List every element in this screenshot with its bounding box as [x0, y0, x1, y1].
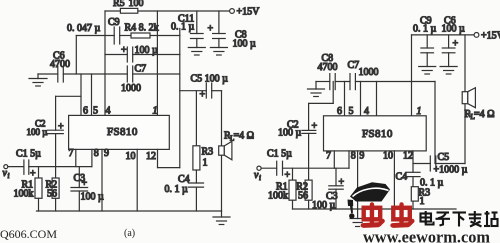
input terminal vi: [3, 165, 10, 180]
wire pin4 right: [376, 82, 378, 116]
capacitor C9 right: [413, 16, 437, 67]
svg-text:56: 56: [298, 191, 308, 202]
capacitor C2 100u: [27, 119, 65, 138]
capacitor C7 1000: [121, 64, 146, 95]
wire output rail right: [434, 82, 436, 164]
svg-text:www.eeworm.com: www.eeworm.com: [363, 228, 490, 243]
svg-text:12: 12: [403, 151, 413, 162]
resistor R3 1: [193, 91, 213, 183]
wire pin7 right: [326, 151, 334, 169]
wire input bus: [29, 166, 92, 168]
svg-text:0. 1 µ: 0. 1 µ: [171, 22, 195, 33]
wire pin9 right: [358, 151, 365, 210]
wire R2 drop: [55, 134, 57, 178]
wire rail pin1: [153, 11, 158, 117]
svg-text:C5 100 µ: C5 100 µ: [191, 74, 229, 85]
svg-text:8: 8: [94, 148, 99, 159]
node feedback branch wire: [76, 35, 180, 37]
svg-text:7: 7: [69, 148, 74, 159]
svg-text:4: 4: [364, 106, 369, 117]
svg-text:10: 10: [126, 151, 136, 162]
wire speaker rail: [221, 91, 223, 211]
svg-text:+: +: [453, 39, 459, 50]
ground left: [29, 74, 47, 86]
wire speaker rail right: [464, 35, 466, 164]
svg-text:=4 Ω: =4 Ω: [474, 109, 495, 120]
svg-text:C7: C7: [135, 64, 147, 75]
svg-text:0. 1 µ: 0. 1 µ: [165, 184, 189, 195]
svg-text:100 µ: 100 µ: [442, 24, 466, 35]
ground bottom: [213, 211, 230, 225]
wire pin12 right: [403, 151, 413, 173]
wire bottom bus: [37, 210, 222, 212]
svg-text:+: +: [339, 177, 345, 188]
+15V terminal right: [474, 31, 500, 42]
capacitor C1 5u: [8, 149, 41, 180]
ground left right-circuit: [308, 82, 325, 97]
resistor R2 right 56: [296, 180, 312, 209]
+15V terminal: [230, 7, 261, 18]
svg-text:+15V: +15V: [481, 31, 500, 42]
svg-text:0. 1 µ: 0. 1 µ: [413, 24, 437, 35]
svg-text:7: 7: [326, 151, 331, 162]
svg-text:R5: R5: [113, 0, 125, 9]
capacitor C11 0.1u: [171, 11, 203, 48]
logo text dianzi xiazaizhan: [421, 211, 498, 227]
svg-text:1000: 1000: [359, 67, 379, 78]
svg-text:C1 5µ: C1 5µ: [267, 149, 292, 160]
wire pin8 right: [349, 151, 356, 169]
svg-text:i: i: [8, 172, 10, 180]
svg-text:+: +: [312, 121, 318, 132]
svg-text:+: +: [200, 90, 206, 101]
ground under C11: [188, 48, 205, 56]
wire rail pin1 right: [412, 35, 422, 117]
svg-text:100k: 100k: [268, 191, 288, 202]
wire C2 feed from pin6: [56, 96, 81, 130]
capacitor C6 right: [442, 16, 466, 67]
svg-text:C7: C7: [348, 60, 360, 71]
svg-text:+: +: [82, 178, 88, 189]
svg-text:C4: C4: [396, 172, 408, 183]
wire pin12 to C5: [413, 163, 430, 165]
svg-text:4700: 4700: [50, 59, 70, 70]
wire 0.047 drop: [75, 36, 77, 75]
svg-text:56: 56: [47, 189, 57, 200]
resistor R1 100k: [14, 167, 43, 211]
capacitor C7 right 1000: [348, 60, 379, 90]
capacitor C8 right 4700: [318, 53, 338, 90]
svg-text:4700: 4700: [318, 62, 338, 73]
svg-text:6: 6: [337, 106, 342, 117]
svg-text:100: 100: [129, 0, 144, 9]
logo chongchong characters (red): [363, 204, 413, 225]
wire pin12 to output rail: [146, 149, 180, 167]
svg-text:C1 5µ: C1 5µ: [16, 149, 41, 160]
capacitor 100u bootstrap: [105, 45, 180, 62]
wire C2 feed right: [309, 82, 334, 131]
resistor R5: [113, 0, 144, 13]
capacitor C6 4700: [50, 51, 70, 83]
svg-text:R3: R3: [202, 147, 214, 158]
ground under C8: [210, 48, 227, 56]
wire pin10: [126, 149, 138, 211]
resistor R1 right 100k: [268, 168, 296, 209]
svg-text:1: 1: [417, 106, 422, 117]
svg-text:FS810: FS810: [362, 128, 393, 140]
ground bottom right: [350, 209, 365, 227]
capacitor C3 100u: [71, 167, 104, 211]
capacitor C4 right 0.1u: [396, 172, 444, 189]
svg-text:100 µ: 100 µ: [233, 39, 257, 50]
speaker right RL=4ohm: [462, 88, 494, 121]
wire input bus right: [283, 167, 350, 169]
input terminal vi right: [254, 166, 261, 182]
wire pin6: [80, 74, 82, 115]
svg-text:+: +: [285, 170, 291, 181]
speaker RL=4ohm: [219, 131, 254, 160]
svg-text:1000: 1000: [121, 83, 141, 94]
svg-text:100 µ: 100 µ: [81, 192, 105, 203]
capacitor C2 right 100u: [278, 120, 318, 139]
svg-text:=4 Ω: =4 Ω: [234, 131, 255, 142]
svg-text:C5: C5: [438, 152, 450, 163]
svg-text:8: 8: [351, 151, 356, 162]
svg-text:1: 1: [420, 196, 425, 207]
capacitor C9 0.047u: [67, 17, 120, 44]
ground under C9 right: [419, 67, 436, 75]
svg-text:9: 9: [359, 151, 364, 162]
svg-text:10: 10: [383, 151, 393, 162]
svg-text:R4 8. 2k: R4 8. 2k: [125, 23, 159, 34]
op-amp U2 FS810: [324, 116, 427, 151]
wire pin6 right: [344, 82, 346, 116]
wire R2 drop right: [308, 133, 310, 180]
svg-text:+: +: [208, 24, 214, 35]
svg-text:100 µ: 100 µ: [27, 127, 48, 137]
svg-text:12: 12: [146, 151, 156, 162]
svg-text:i: i: [259, 174, 261, 182]
wire pin5: [91, 74, 93, 115]
capacitor C8 100u: [208, 11, 257, 50]
resistor R2 56: [46, 178, 60, 211]
capacitor C4 0.1u: [165, 174, 204, 211]
svg-text:0. 047 µ: 0. 047 µ: [67, 23, 101, 34]
op-amp U1 FS810: [69, 115, 170, 149]
wire pin8: [92, 148, 99, 166]
wire pin9: [102, 148, 109, 211]
wire top supply right: [412, 34, 475, 36]
svg-text:1: 1: [203, 158, 208, 169]
svg-text:5: 5: [349, 106, 354, 117]
svg-text:+1000 µ: +1000 µ: [434, 164, 468, 175]
svg-text:Q606.COM: Q606.COM: [0, 227, 57, 241]
svg-text:+15V: +15V: [237, 7, 261, 18]
wire pin7: [69, 148, 76, 166]
capacitor C5 100u: [180, 74, 228, 101]
wire output rail: [179, 29, 181, 168]
svg-text:100k: 100k: [14, 189, 34, 200]
ground under C6 right: [440, 67, 457, 75]
logo graduation cap: [348, 182, 391, 218]
svg-text:+: +: [121, 45, 127, 56]
svg-text:100 µ: 100 µ: [278, 128, 302, 139]
wire bottom bus right: [293, 208, 457, 210]
resistor R3 right 1: [411, 187, 430, 209]
wire top supply: [105, 10, 230, 12]
svg-text:+: +: [58, 122, 64, 133]
svg-text:(a): (a): [124, 228, 135, 239]
wire ground bus right: [316, 81, 435, 83]
svg-text:C9: C9: [108, 17, 120, 28]
svg-text:9: 9: [104, 148, 109, 159]
pin labels 6 5 4: [83, 106, 111, 117]
capacitor C3 right 100u: [312, 168, 345, 211]
wire pin10 right: [383, 151, 394, 210]
wire rail pin4: [104, 11, 106, 115]
capacitor C5 right 1000u: [430, 152, 467, 175]
svg-text:100 µ: 100 µ: [135, 45, 159, 56]
wire pin5 right: [360, 82, 362, 116]
resistor R4 8.2k: [125, 23, 159, 39]
wire ground bus: [38, 73, 180, 75]
capacitor C1 right 5u: [261, 149, 292, 182]
pin labels 6 5 4 right: [337, 106, 369, 117]
svg-text:FS810: FS810: [107, 126, 138, 138]
